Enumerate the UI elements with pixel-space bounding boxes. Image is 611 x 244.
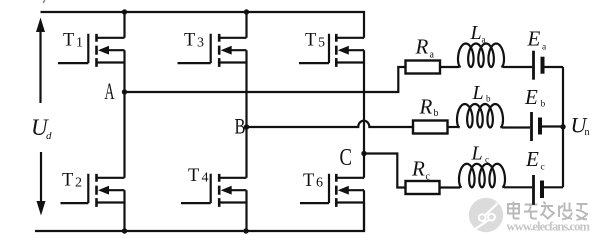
svg-text:c: c [541,163,545,173]
right rail joining three phases [562,67,564,187]
phase leg B wire [245,12,247,231]
wire Ra to La [440,66,459,68]
svg-text:L: L [470,22,482,44]
inductor Lc [459,164,505,188]
svg-text:E: E [524,85,538,109]
wire La to Ea [503,66,532,68]
svg-text:T: T [184,31,195,51]
junction dot top rail / leg A [122,9,127,14]
svg-text:B: B [235,114,246,139]
resistor Rc [406,181,440,194]
svg-text:5: 5 [318,36,325,51]
svg-text:d: d [46,130,52,142]
phase leg A wire [123,12,125,231]
svg-text:T: T [305,31,316,51]
wire phase A to Ra [125,67,406,92]
svg-text:R: R [411,157,425,181]
node A [122,89,127,94]
dc bus bottom rail [35,203,364,232]
transistor T3 [178,34,247,67]
battery Ec [532,175,535,205]
svg-text:L: L [471,143,483,165]
svg-text:2: 2 [75,176,82,191]
phase leg C wire [363,50,365,231]
wire Ec to right rail [544,186,563,188]
svg-text:A: A [105,79,115,104]
svg-text:c: c [426,172,431,183]
wire Lc to Ec [504,186,532,188]
battery Eb [530,112,533,141]
svg-text:3: 3 [197,36,204,51]
transistor T6 [300,174,364,207]
transistor T4 [181,174,247,207]
svg-text:T: T [62,171,73,191]
svg-text:E: E [527,27,541,51]
svg-text:4: 4 [202,171,209,186]
Ud down arrow [37,152,46,216]
svg-text:n: n [585,127,590,138]
wire phase B to Rb with hop over leg C [247,121,414,127]
svg-text:6: 6 [316,176,323,191]
svg-text:b: b [434,108,439,119]
wire Rb to Lb [448,126,459,128]
svg-text:a: a [430,50,435,61]
wire Ea to right rail [545,66,564,68]
resistor Rb [413,121,448,134]
battery Ea [532,51,535,80]
node B [244,124,249,129]
svg-text:b: b [541,100,546,110]
svg-text:c: c [485,154,489,164]
junction dot bottom rail / leg B [243,228,248,233]
inductor La [458,44,504,68]
svg-text:T: T [63,31,74,51]
wire Eb to node Un [542,125,563,127]
watermark logo circle [469,186,507,233]
svg-text:b: b [486,94,491,104]
svg-text:R: R [419,95,433,119]
wire phase C to Rc [364,154,406,188]
watermark chinese text 电子发烧友 [508,202,588,220]
transistor T2 [61,174,125,207]
Ud up arrow [36,18,45,104]
transistor T1 [58,34,125,67]
svg-text:1: 1 [76,36,83,51]
svg-text:R: R [415,35,429,59]
junction dot bottom rail / leg A [122,228,127,233]
node Un [560,124,565,129]
svg-text:T: T [303,171,314,191]
dc bus top rail [41,12,365,38]
inductor Lb [457,104,503,128]
top corner tick [43,0,45,3]
svg-text:L: L [472,82,484,104]
node C [361,151,366,156]
wire Lb to Eb [502,126,530,128]
svg-text:www.elecfans.com: www.elecfans.com [507,220,591,234]
svg-text:C: C [340,145,353,171]
svg-text:T: T [188,166,199,186]
svg-text:a: a [482,34,486,44]
transistor T5 [299,34,364,67]
wire Rc to Lc [440,186,461,188]
resistor Ra [406,61,441,74]
svg-text:E: E [525,147,539,171]
junction dot top rail / leg B [244,9,249,14]
